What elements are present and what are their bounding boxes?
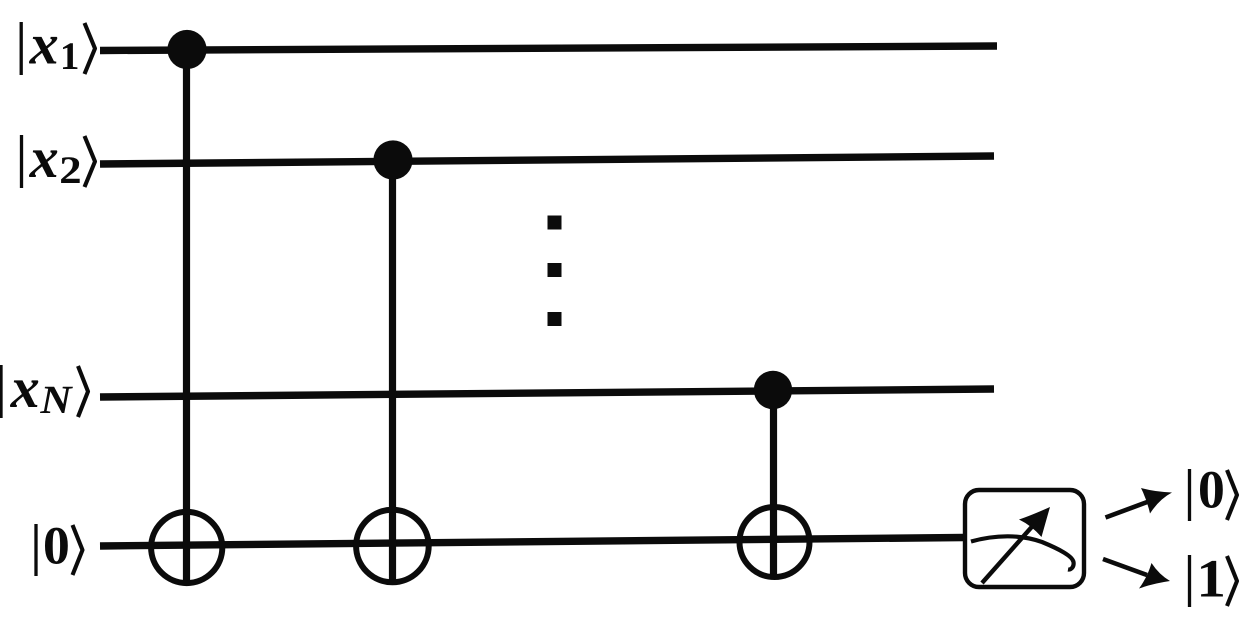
- arrow to outcome |1> head: [1139, 563, 1170, 589]
- vertical ellipsis dot 2: [548, 263, 562, 277]
- label |x2> ket: [22, 135, 96, 188]
- arrow to outcome |1> shaft: [1103, 559, 1147, 575]
- measurement meter gauge arc: [971, 536, 1074, 569]
- wire q4 (ancilla |0> line): [100, 538, 964, 547]
- wire q2 (|x2> line): [100, 156, 994, 164]
- wire vertical CNOT2 control line: [389, 160, 396, 584]
- arrow to outcome |0> shaft: [1106, 501, 1151, 518]
- vertical ellipsis dot 3: [548, 312, 562, 326]
- label |0> ancilla ket: [36, 524, 83, 576]
- label outcome |1> ket: [1190, 555, 1238, 607]
- measurement meter needle arrowhead: [1019, 507, 1050, 537]
- wire q1 (|x1> line): [100, 46, 997, 51]
- CNOT1 target circle on ancilla: [151, 512, 222, 583]
- wire q3 (|xN> line): [100, 389, 994, 397]
- measurement meter needle: [982, 521, 1037, 583]
- CNOT3 target circle on ancilla: [740, 507, 810, 577]
- measurement meter box M1: [965, 490, 1084, 587]
- control dot CNOT2 on q2: [373, 140, 412, 179]
- wire vertical CNOT1 control line: [183, 49, 190, 585]
- label |x1> ket: [21, 22, 95, 75]
- label outcome |0> ket: [1190, 469, 1238, 521]
- control dot CNOT3 on q3: [754, 371, 792, 409]
- label |xN> ket: [1, 365, 88, 418]
- arrow to outcome |0> head: [1141, 488, 1172, 514]
- control dot CNOT1 on q1: [167, 30, 206, 69]
- vertical ellipsis dot 1: [548, 216, 562, 230]
- CNOT2 target circle on ancilla: [356, 510, 429, 583]
- wire vertical CNOT3 control line: [770, 390, 777, 579]
